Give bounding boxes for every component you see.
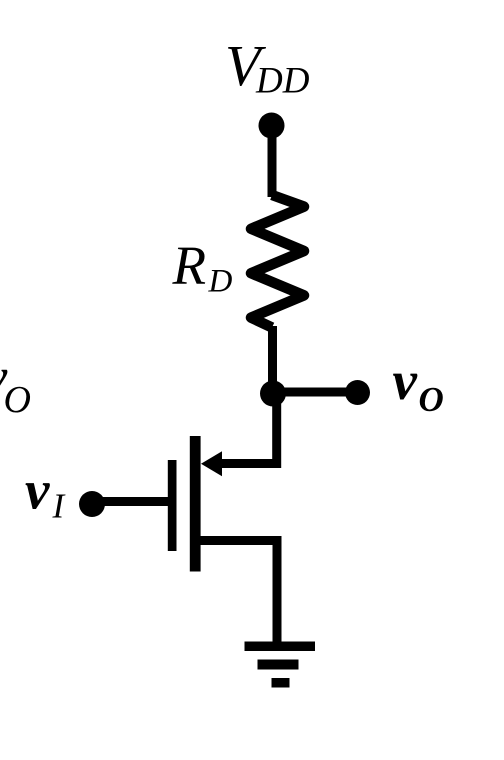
svg-text:R: R	[172, 235, 207, 296]
svg-text:D: D	[208, 264, 233, 300]
svg-text:v: v	[25, 460, 50, 521]
svg-text:DD: DD	[255, 61, 310, 102]
wire: source lead to ground	[200, 541, 277, 644]
label VDD	[225, 33, 310, 102]
svg-text:O: O	[419, 380, 444, 419]
svg-text:v: v	[393, 350, 418, 411]
transistor gate bar	[168, 460, 177, 551]
ground bar 2	[258, 660, 299, 670]
wire: node down to drain lead (corner)	[220, 394, 277, 464]
wire: VDD terminal to resistor top	[268, 125, 277, 197]
terminal dot vI	[79, 491, 105, 517]
partial label vO at left edge	[0, 346, 31, 421]
terminal dot vO	[345, 380, 370, 405]
wire: node to vO terminal	[273, 388, 356, 397]
label vI	[25, 460, 67, 526]
node dot (output node)	[260, 381, 286, 407]
arrowhead on drain lead (points to channel)	[201, 451, 222, 476]
transistor channel bar	[190, 436, 201, 572]
svg-text:O: O	[4, 379, 31, 421]
resistor RD	[251, 195, 304, 328]
wire: resistor bottom to output node	[268, 326, 277, 394]
terminal dot VDD	[259, 113, 285, 139]
label vO	[393, 350, 444, 419]
ground bar 3	[272, 678, 290, 688]
svg-text:I: I	[52, 487, 67, 526]
label RD	[172, 235, 233, 300]
wire: vI terminal to gate	[91, 497, 168, 506]
ground bar 1	[245, 642, 316, 652]
